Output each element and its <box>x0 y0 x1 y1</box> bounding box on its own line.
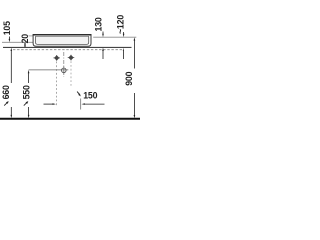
counter top line <box>3 46 132 48</box>
svg-text:150: 150 <box>83 90 97 100</box>
ext stub left of rim <box>29 35 34 37</box>
svg-text:550: 550 <box>22 85 32 99</box>
drain symbol (circle with crosshair) <box>62 68 67 73</box>
wash basin interior wash <box>36 36 89 44</box>
extension line at 150 offset <box>80 99 82 110</box>
centre line (dash-dot) <box>63 52 65 77</box>
dimension ~120 upper arrow (down to rim level) <box>123 32 125 37</box>
svg-text:660: 660 <box>1 85 11 99</box>
fixing point left (diamond with cross) <box>53 55 60 61</box>
dimension 150 right arrow (pointing left) <box>82 103 105 105</box>
floor line <box>0 118 140 120</box>
svg-text:20: 20 <box>20 34 30 44</box>
dashed alternative counter line <box>13 49 124 51</box>
dimension 105 arrow <box>9 37 11 43</box>
fixing point right (diamond with cross) <box>68 55 75 61</box>
wash basin inner wall <box>36 36 89 44</box>
hidden line below left fixing point <box>56 62 58 108</box>
dimension 660 line lower segment with arrow <box>11 107 13 118</box>
dimension 550 line lower segment with arrow <box>28 107 30 118</box>
wash basin outer shell <box>33 35 91 46</box>
dimension 900 line lower segment with arrow <box>134 93 136 118</box>
svg-text:130: 130 <box>94 17 104 31</box>
wash basin rim (thick top line) <box>33 34 92 36</box>
svg-text:900: 900 <box>124 71 134 85</box>
dimension 660 line upper segment with arrow <box>11 48 13 83</box>
rim extension line right <box>93 36 136 38</box>
svg-text:105: 105 <box>2 21 12 35</box>
svg-text:~120: ~120 <box>116 15 126 34</box>
dimension 900 line upper segment with arrow <box>134 37 136 68</box>
dimension 130 upper arrow (down to rim level) <box>102 32 104 38</box>
dimension 20 arrows (cramped pair) <box>24 42 26 47</box>
wash basin inner rim line <box>36 35 89 37</box>
dimension 550 line upper segment with arrow <box>28 70 30 83</box>
drain level extension line <box>29 69 69 71</box>
dimension 150 left arrow (pointing right) <box>44 103 56 105</box>
dimension 130 lower arrow (up to counter) <box>102 48 104 59</box>
extension line left (basin underside level) <box>2 41 33 43</box>
hidden line below right fixing point <box>70 61 72 86</box>
dimension ~120 lower arrow (up to dashed line) <box>123 48 124 59</box>
